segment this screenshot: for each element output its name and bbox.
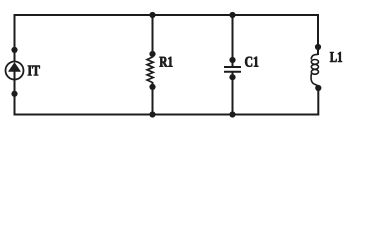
node dots [11,12,321,118]
node above IT [11,47,17,53]
wire C1 branch bottom [232,72,234,116]
label C1 [245,57,258,67]
wire left branch [14,14,16,62]
label IT [28,66,40,76]
label R1 [160,57,173,67]
label L1 [330,52,342,62]
capacitor C1 [224,67,241,72]
node C1 bottom [229,74,235,80]
wire bottom rail [14,114,319,116]
wire R1 branch top [152,14,154,58]
wire C1 branch top [232,14,234,67]
node L1 top [315,44,321,50]
node C1 top [229,57,235,63]
node R1 bottom rail [149,111,155,117]
wire top rail [14,14,319,16]
wire L1 branch bottom [317,87,319,116]
node below IT [11,91,17,97]
node C1 top rail [229,12,235,18]
node R1 top rail [149,12,155,18]
inductor L1 [311,54,318,87]
node R1 bottom [149,84,155,90]
node C1 bottom rail [229,111,235,117]
current source IT [6,62,24,80]
node R1 top [149,51,155,57]
node L1 bottom [315,85,321,91]
wire R1 branch bottom [152,82,154,116]
wire L1 branch top [317,14,319,55]
resistor R1 [147,57,153,83]
